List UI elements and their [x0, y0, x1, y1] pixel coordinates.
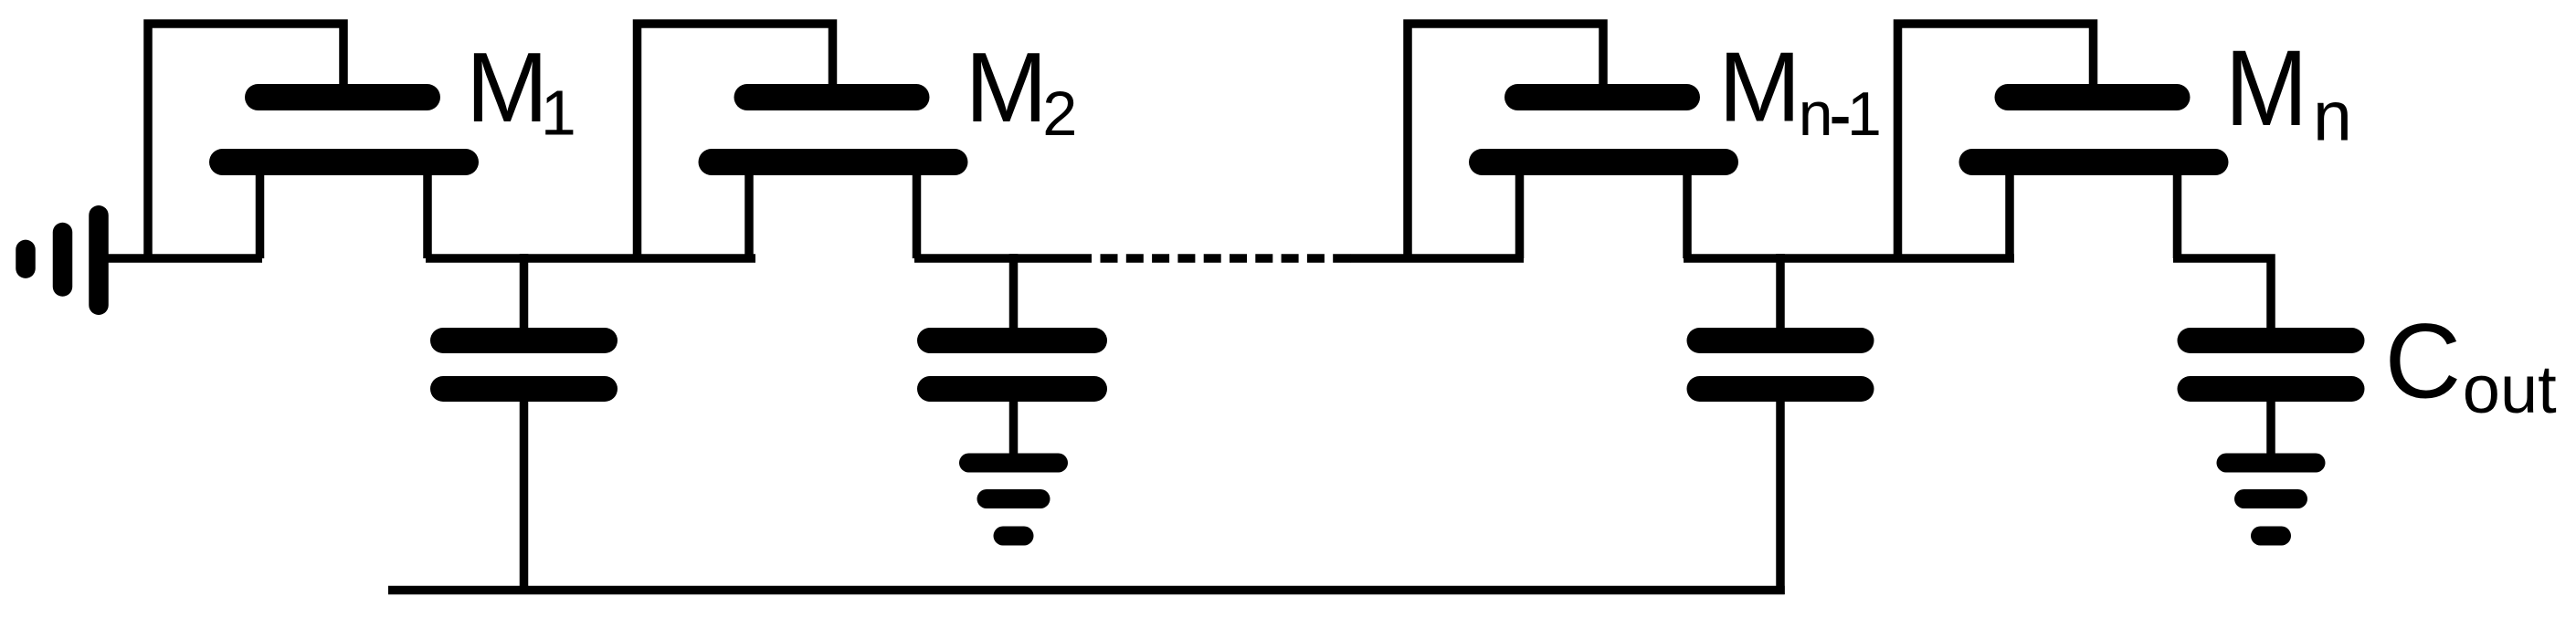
svg-text:1: 1 [541, 77, 576, 148]
svg-text:out: out [2463, 351, 2557, 427]
svg-text:2: 2 [1042, 79, 1077, 149]
svg-text:n: n [2313, 77, 2352, 155]
svg-text:C: C [2385, 302, 2462, 421]
svg-text:M: M [1718, 31, 1800, 141]
svg-text:M: M [2225, 27, 2308, 148]
svg-text:n: n [1799, 79, 1833, 149]
svg-text:M: M [466, 32, 548, 142]
svg-text:1: 1 [1847, 79, 1882, 149]
svg-text:M: M [966, 32, 1048, 142]
